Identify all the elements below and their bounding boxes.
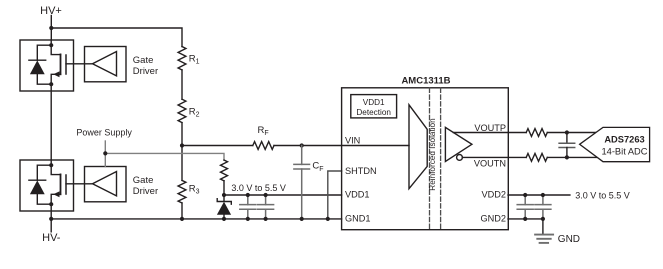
node R3 bottom dot bbox=[180, 217, 184, 221]
label R1 bbox=[189, 54, 200, 66]
inverting bubble on VOUTN bbox=[457, 155, 463, 161]
pin VIN label bbox=[345, 136, 360, 146]
transistor Q2 IGBT bbox=[51, 165, 66, 204]
wire VIN line left of RF bbox=[182, 145, 253, 147]
svg-text:Gate: Gate bbox=[133, 55, 154, 66]
label Power Supply bbox=[76, 127, 132, 137]
IGBT module Q1 box bbox=[20, 40, 74, 91]
svg-text:VOUTN: VOUTN bbox=[474, 159, 506, 169]
gate driver U3 box bbox=[85, 167, 127, 202]
svg-text:Driver: Driver bbox=[133, 66, 158, 77]
pin GND2 label bbox=[480, 214, 506, 224]
wire VOUTN inside chip bbox=[462, 156, 526, 158]
svg-text:VDD1: VDD1 bbox=[363, 98, 385, 107]
svg-text:3.0 V to 5.5 V: 3.0 V to 5.5 V bbox=[575, 191, 630, 201]
wire collector entry Q1 bbox=[50, 40, 52, 45]
wire VOUTP inside chip bbox=[453, 132, 526, 134]
diode D2 freewheel bbox=[29, 165, 51, 204]
node C2 dots bbox=[264, 193, 268, 197]
label AMC1311B bbox=[401, 76, 450, 87]
resistor R2 bbox=[178, 99, 186, 122]
wire Q2 emitter to HV- bbox=[50, 204, 52, 232]
svg-text:HV-: HV- bbox=[42, 232, 61, 244]
svg-text:VDD1: VDD1 bbox=[345, 190, 370, 200]
capacitor CF (gray) bbox=[294, 146, 310, 219]
svg-text:GND2: GND2 bbox=[480, 214, 506, 224]
label R2 bbox=[189, 107, 200, 119]
node CF bottom dot bbox=[300, 217, 304, 221]
capacitor differential bbox=[559, 133, 575, 158]
wire collector entry Q2 bbox=[50, 160, 52, 165]
wire resistor to zener bbox=[223, 181, 225, 201]
pin VOUTP label bbox=[474, 123, 506, 133]
wire HV+ lead down bbox=[50, 16, 52, 41]
resistor output filter bottom bbox=[526, 154, 547, 162]
node zener bottom dot bbox=[222, 217, 226, 221]
svg-text:Driver: Driver bbox=[133, 186, 158, 197]
pin VOUTN label bbox=[474, 159, 506, 169]
resistor unlabeled bias bbox=[221, 160, 228, 181]
wire Q2 gate bbox=[66, 183, 93, 185]
isolation barrier dashed lines bbox=[430, 88, 441, 229]
diode D1 freewheel bbox=[29, 45, 51, 84]
svg-text:SHTDN: SHTDN bbox=[345, 166, 377, 176]
IGBT module Q2 box bbox=[20, 160, 74, 211]
resistor R1 bbox=[178, 47, 186, 70]
capacitor bypass C4 (gray) bbox=[535, 195, 551, 219]
node junction dot HV+ rail bbox=[49, 26, 53, 30]
diode Z1 zener bbox=[217, 199, 231, 219]
node C4 dots bbox=[541, 193, 545, 197]
modulator trapezoid bbox=[409, 105, 427, 189]
label GND bbox=[558, 234, 580, 245]
node power supply dot bbox=[103, 151, 107, 155]
svg-text:14-Bit ADC: 14-Bit ADC bbox=[602, 147, 648, 157]
ground symbol (gray bars) bbox=[535, 235, 553, 243]
wire power supply drop (gray) bbox=[104, 141, 106, 167]
wire VDD1 rail bbox=[224, 194, 342, 196]
node HV+ label bbox=[40, 5, 62, 17]
gate driver U2 box bbox=[85, 47, 127, 82]
capacitor bypass C1 (gray) bbox=[240, 195, 256, 219]
label 3.0 V to 5.5 V right bbox=[575, 191, 630, 201]
pin VDD2 label bbox=[481, 190, 506, 200]
wire VDD2 line bbox=[508, 194, 570, 196]
node zener top dot on VDD1 rail bbox=[222, 193, 226, 197]
node Q2 collector dot bbox=[49, 163, 53, 167]
wire Q1 emitter exit bbox=[50, 84, 52, 160]
op-amp buffer in U3 bbox=[93, 172, 117, 196]
wire GND1 rail bbox=[51, 218, 341, 220]
label Gate Driver upper bbox=[133, 55, 158, 77]
label R3 bbox=[189, 184, 200, 196]
svg-text:Reinforced Isolation: Reinforced Isolation bbox=[428, 118, 437, 191]
wire GND2 line bbox=[508, 218, 544, 220]
node C3 dots bbox=[523, 193, 527, 197]
capacitor bypass C2 (gray) bbox=[258, 195, 274, 219]
transistor Q1 IGBT bbox=[51, 45, 66, 84]
block ADS7263 ADC pentagon bbox=[580, 127, 650, 161]
wire VIN line RF to chip bbox=[274, 145, 409, 147]
svg-text:Power Supply: Power Supply bbox=[76, 127, 132, 137]
node VIN tap dot bbox=[180, 143, 184, 147]
op-amp U1 AMC1311B box bbox=[342, 88, 509, 230]
label 3.0 V to 5.5 V left bbox=[231, 183, 286, 193]
wire R1 to R2 bbox=[181, 70, 183, 99]
wire top rail HV+ to R1 bbox=[51, 28, 182, 47]
node C1 dots bbox=[246, 193, 250, 197]
svg-text:ADS7263: ADS7263 bbox=[604, 134, 644, 144]
resistor RF bbox=[253, 142, 274, 150]
node HV- label bbox=[42, 232, 61, 244]
node Q1 emitter dot bbox=[49, 82, 53, 86]
svg-text:VDD2: VDD2 bbox=[481, 190, 506, 200]
wire ground stem bbox=[542, 219, 544, 234]
node SHTDN dot bbox=[326, 217, 330, 221]
node CF top dot bbox=[300, 143, 304, 147]
node Q2 emitter dot bbox=[49, 202, 53, 206]
svg-text:VOUTP: VOUTP bbox=[474, 123, 506, 133]
capacitor bypass C3 (gray) bbox=[517, 195, 533, 219]
node Q1 collector dot bbox=[49, 43, 53, 47]
wire R3 to GND1 rail bbox=[181, 203, 183, 219]
svg-text:AMC1311B: AMC1311B bbox=[401, 76, 450, 87]
wire power supply branch (gray) bbox=[105, 153, 224, 160]
svg-text:Detection: Detection bbox=[356, 108, 391, 117]
node diff cap dots bbox=[565, 130, 569, 134]
node HV- rail dot bbox=[49, 217, 53, 221]
pin VDD1 label bbox=[345, 190, 370, 200]
resistor R3 bbox=[178, 180, 186, 203]
svg-text:VIN: VIN bbox=[345, 136, 360, 146]
svg-text:Gate: Gate bbox=[133, 175, 154, 186]
label Gate Driver lower bbox=[133, 175, 158, 197]
block VDD1 Detection bbox=[351, 95, 397, 118]
wire VOUTN to ADC bbox=[547, 156, 596, 158]
wire VOUTP to ADC bbox=[547, 132, 596, 134]
label Reinforced Isolation (rotated) bbox=[428, 118, 437, 191]
op-amp output buffer triangle bbox=[445, 127, 472, 161]
wire R2 to R3 through VIN tap bbox=[181, 123, 183, 181]
pin SHTDN label bbox=[345, 166, 377, 176]
label CF bbox=[312, 161, 323, 173]
label RF bbox=[258, 125, 269, 137]
svg-text:GND1: GND1 bbox=[345, 214, 371, 224]
resistor output filter top bbox=[526, 129, 547, 137]
svg-text:GND: GND bbox=[558, 234, 580, 245]
pin GND1 label bbox=[345, 214, 371, 224]
wire SHTDN to GND1 bbox=[328, 171, 342, 219]
wire Q1 gate bbox=[66, 63, 93, 65]
svg-text:3.0 V to 5.5 V: 3.0 V to 5.5 V bbox=[231, 183, 286, 193]
op-amp buffer in U2 bbox=[93, 52, 117, 76]
